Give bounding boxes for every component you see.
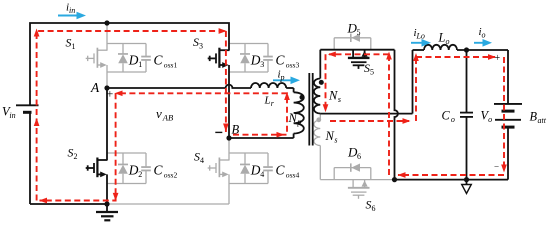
svg-text:A: A (90, 80, 100, 95)
svg-text:o: o (481, 31, 485, 40)
svg-text:−: − (494, 162, 499, 172)
svg-text:N: N (288, 111, 298, 125)
svg-text:Lo: Lo (415, 32, 424, 41)
svg-text:oss3: oss3 (286, 61, 300, 70)
svg-text:oss1: oss1 (164, 61, 178, 70)
svg-text:5: 5 (370, 68, 374, 77)
svg-text:3: 3 (260, 60, 264, 69)
svg-text:in: in (69, 6, 75, 15)
svg-text:o: o (451, 115, 455, 124)
svg-text:L: L (438, 31, 446, 45)
svg-text:C: C (276, 163, 286, 178)
svg-text:D: D (128, 163, 139, 178)
svg-text:2: 2 (74, 152, 78, 161)
svg-text:B: B (232, 123, 240, 137)
svg-text:D: D (250, 53, 261, 68)
svg-text:3: 3 (199, 42, 203, 51)
svg-text:N: N (328, 89, 338, 103)
svg-text:C: C (276, 53, 286, 68)
svg-text:6: 6 (357, 152, 361, 161)
svg-text:s: s (334, 136, 337, 145)
svg-text:5: 5 (357, 28, 361, 37)
svg-text:D: D (250, 163, 261, 178)
svg-text:N: N (325, 129, 335, 143)
svg-text:1: 1 (138, 60, 142, 69)
svg-text:+: + (495, 53, 501, 64)
svg-text:oss2: oss2 (164, 171, 178, 180)
svg-text:in: in (9, 111, 15, 120)
svg-text:p: p (296, 118, 301, 127)
svg-text:att: att (538, 116, 547, 125)
svg-text:6: 6 (372, 204, 376, 213)
svg-text:s: s (338, 95, 341, 104)
svg-text:C: C (442, 109, 451, 123)
svg-text:L: L (264, 95, 271, 107)
svg-text:v: v (156, 106, 162, 121)
svg-text:+: + (107, 87, 114, 101)
svg-text:p: p (279, 73, 284, 82)
svg-text:2: 2 (138, 170, 142, 179)
svg-text:1: 1 (72, 42, 76, 51)
svg-text:o: o (446, 37, 450, 46)
svg-text:C: C (154, 53, 164, 68)
svg-text:D: D (128, 53, 139, 68)
svg-text:oss4: oss4 (286, 171, 300, 180)
svg-text:C: C (154, 163, 164, 178)
svg-text:4: 4 (200, 156, 204, 165)
svg-text:o: o (488, 115, 492, 124)
svg-text:AB: AB (162, 113, 173, 123)
svg-text:4: 4 (260, 170, 264, 179)
svg-text:B: B (530, 110, 538, 124)
